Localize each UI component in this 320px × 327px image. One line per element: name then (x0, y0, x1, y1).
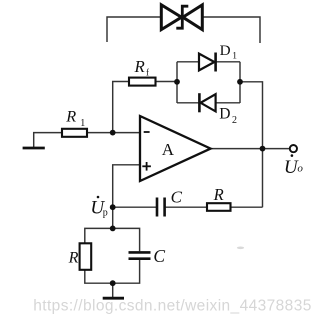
svg-text:https://blog.csdn.net/weixin_4: https://blog.csdn.net/weixin_44378835 (33, 298, 312, 315)
svg-text:C: C (171, 187, 183, 206)
svg-text:R: R (65, 108, 76, 126)
svg-text:R: R (213, 185, 224, 204)
svg-text:1: 1 (232, 52, 237, 62)
svg-text:p: p (103, 207, 108, 218)
svg-text:2: 2 (232, 115, 237, 126)
svg-text:R: R (68, 250, 79, 267)
svg-text:1: 1 (80, 118, 85, 129)
svg-text:A: A (162, 140, 175, 159)
svg-text:D: D (220, 42, 231, 59)
svg-text:C: C (153, 246, 165, 266)
svg-text:R: R (134, 57, 145, 76)
svg-text:D: D (219, 105, 230, 122)
svg-text:o: o (297, 163, 303, 175)
svg-text:f: f (146, 67, 149, 77)
